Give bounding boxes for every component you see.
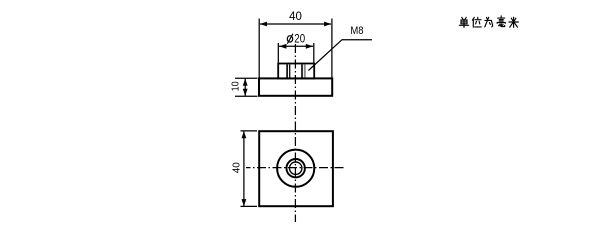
dimension 40 left extension line top [241,130,258,132]
svg-text:40: 40 [289,9,302,23]
dimension 40 top right arrowhead [324,22,331,27]
thread hole left line [286,64,288,77]
dimension 10 extension line top [235,77,258,79]
glyph wei (position) [472,17,481,27]
dimension phi20 dimension line [279,45,313,47]
glyph dan [459,17,468,27]
glyph wei (for) [485,17,493,27]
vertical centerline [294,44,296,222]
svg-text:20: 20 [294,31,305,45]
dimension 40 left top arrowhead [242,131,247,138]
bottom view square outline [259,131,333,206]
horizontal centerline [246,167,344,169]
svg-text:40: 40 [231,162,242,173]
dimension 40 top extension line left [258,19,260,78]
dimension phi20 extension line right [313,43,315,63]
dimension 40 left dimension line [243,131,245,206]
glyph mi [509,17,518,27]
dimension phi20 extension line left [277,43,279,63]
dimension 40 left extension line bottom [241,205,258,207]
front view base plate outline [259,78,332,95]
dimension phi20 right arrowhead [306,44,313,49]
svg-text:M8: M8 [350,25,363,37]
thread minor circle [290,162,302,174]
dimension 40 top dimension line [260,23,331,25]
dimension 10 top arrowhead [243,79,248,86]
glyph hao [497,16,505,27]
dimension 10 dimension line [244,79,246,97]
boss circle [277,150,314,187]
svg-text:10: 10 [230,81,241,91]
thread hole right line [301,64,303,77]
dimension phi20 left arrowhead [279,44,286,49]
dimension 40 top left arrowhead [260,22,267,27]
dimension 10 extension line bottom [235,95,258,97]
thread major circle [287,159,305,177]
M8 leader line [308,40,372,71]
front view boss outline [278,64,314,79]
dimension 40 left bottom arrowhead [242,199,247,206]
dimension 10 bottom arrowhead [243,89,248,96]
thread major right line [304,64,306,77]
note text: units are millimeters (hand-drawn CJK glyphs) [459,16,518,27]
dimension phi20 label phi symbol [287,34,293,44]
thread major left line [289,64,291,77]
dimension 40 top extension line right [331,19,333,78]
